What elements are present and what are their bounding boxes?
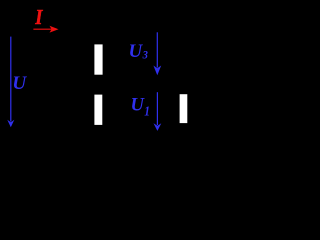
wire R1 to bottom xyxy=(97,125,99,134)
terminal left top xyxy=(29,29,31,36)
label U3 xyxy=(129,41,149,62)
svg-text:3: 3 xyxy=(142,49,149,62)
wire R2 to bottom xyxy=(182,123,184,134)
svg-text:U: U xyxy=(129,41,144,62)
resistor R1 body xyxy=(93,94,103,127)
svg-text:U: U xyxy=(12,73,27,94)
wire R3 to R1 xyxy=(97,75,99,94)
voltage arrow U1 xyxy=(154,92,162,131)
svg-text:1: 1 xyxy=(144,103,150,118)
current arrow I xyxy=(33,26,58,33)
wire top left xyxy=(30,28,98,30)
wire bottom xyxy=(30,133,183,135)
resistor R3 body xyxy=(93,43,103,75)
wire right branch down to R2 xyxy=(182,29,184,94)
voltage arrow U xyxy=(7,37,14,128)
wire node A to R3 xyxy=(97,29,99,44)
svg-text:U: U xyxy=(131,94,146,115)
terminal left bottom xyxy=(29,127,31,134)
label U1 xyxy=(131,94,151,118)
resistor R2 body xyxy=(179,93,189,124)
voltage arrow U3 xyxy=(153,32,161,75)
svg-text:I: I xyxy=(34,6,43,29)
wire top right xyxy=(98,28,183,30)
